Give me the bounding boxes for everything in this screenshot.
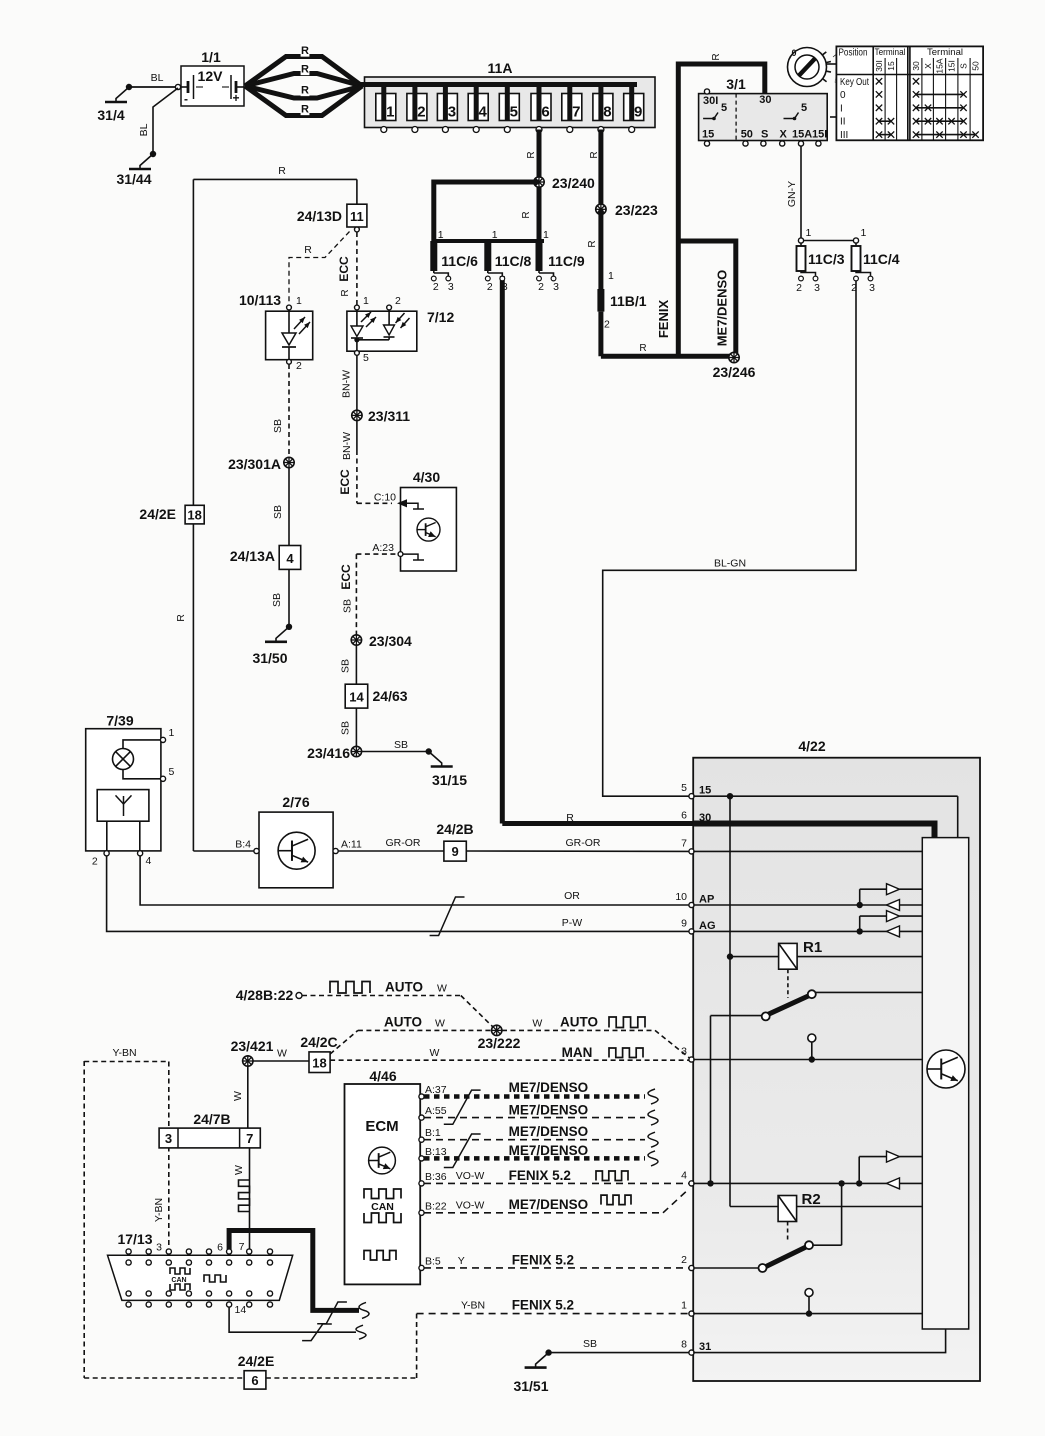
svg-text:B:13: B:13 xyxy=(425,1146,447,1158)
svg-text:BN-W: BN-W xyxy=(341,432,353,460)
svg-text:23/304: 23/304 xyxy=(369,633,412,649)
svg-text:W: W xyxy=(429,1047,439,1059)
svg-text:CAN: CAN xyxy=(371,1201,394,1213)
svg-text:5: 5 xyxy=(721,102,727,114)
svg-text:R: R xyxy=(301,104,309,116)
svg-text:2: 2 xyxy=(296,360,302,372)
svg-text:Y-BN: Y-BN xyxy=(461,1300,485,1312)
svg-text:VO-W: VO-W xyxy=(456,1170,485,1182)
svg-text:OR: OR xyxy=(564,890,580,902)
svg-text:5: 5 xyxy=(363,352,369,364)
svg-text:2: 2 xyxy=(796,282,802,294)
svg-text:24/13D: 24/13D xyxy=(297,208,342,224)
svg-text:1: 1 xyxy=(861,227,867,239)
svg-text:2: 2 xyxy=(395,295,401,307)
svg-text:24/13A: 24/13A xyxy=(230,548,275,564)
svg-text:A:23: A:23 xyxy=(372,542,394,554)
svg-text:R1: R1 xyxy=(803,939,822,956)
svg-text:15: 15 xyxy=(886,61,896,71)
svg-text:30I: 30I xyxy=(703,95,718,107)
svg-text:SB: SB xyxy=(340,659,352,673)
svg-text:1/1: 1/1 xyxy=(201,49,221,65)
svg-text:11: 11 xyxy=(350,209,364,224)
svg-text:15I: 15I xyxy=(812,129,827,141)
svg-text:12V: 12V xyxy=(198,68,224,84)
svg-text:-: - xyxy=(184,92,188,106)
svg-text:50: 50 xyxy=(741,129,753,141)
svg-text:31: 31 xyxy=(699,1341,711,1353)
svg-text:9: 9 xyxy=(451,844,458,859)
svg-text:SB: SB xyxy=(394,739,408,751)
svg-text:R: R xyxy=(301,45,309,57)
svg-text:11A: 11A xyxy=(488,60,513,76)
svg-text:1: 1 xyxy=(386,104,394,121)
svg-text:31/4: 31/4 xyxy=(97,107,124,123)
svg-text:Terminal: Terminal xyxy=(927,47,963,58)
svg-text:S: S xyxy=(959,63,969,69)
svg-text:11C/8: 11C/8 xyxy=(495,253,532,269)
svg-text:24/2E: 24/2E xyxy=(238,1353,275,1369)
svg-text:R: R xyxy=(301,64,309,76)
svg-text:B:36: B:36 xyxy=(425,1171,447,1183)
svg-text:30: 30 xyxy=(759,94,771,106)
svg-text:50: 50 xyxy=(971,61,981,71)
svg-text:1: 1 xyxy=(543,229,549,241)
svg-text:15I: 15I xyxy=(947,60,957,72)
svg-text:R: R xyxy=(566,812,574,824)
svg-text:7: 7 xyxy=(681,837,687,849)
svg-text:11C/4: 11C/4 xyxy=(863,251,900,267)
svg-text:FENIX 5.2: FENIX 5.2 xyxy=(512,1298,574,1313)
svg-text:R: R xyxy=(589,151,600,158)
svg-text:W: W xyxy=(232,1091,244,1101)
svg-text:Y: Y xyxy=(458,1255,465,1267)
svg-text:23/416: 23/416 xyxy=(307,745,350,761)
svg-text:AG: AG xyxy=(699,920,716,932)
svg-text:ME7/DENSO: ME7/DENSO xyxy=(509,1143,589,1158)
svg-text:23/421: 23/421 xyxy=(231,1038,274,1054)
svg-text:23/222: 23/222 xyxy=(478,1035,521,1051)
svg-text:4: 4 xyxy=(286,551,294,566)
svg-text:31/51: 31/51 xyxy=(513,1378,548,1394)
svg-text:Terminal: Terminal xyxy=(875,47,906,58)
svg-text:4: 4 xyxy=(479,104,488,121)
svg-text:SB: SB xyxy=(272,505,284,519)
svg-text:3: 3 xyxy=(448,104,456,121)
svg-text:ECM: ECM xyxy=(365,1118,398,1135)
svg-text:31/15: 31/15 xyxy=(432,772,467,788)
svg-text:P-W: P-W xyxy=(562,917,583,929)
svg-text:17/13: 17/13 xyxy=(117,1231,152,1247)
svg-text:4/28B:22: 4/28B:22 xyxy=(236,987,294,1003)
svg-text:X: X xyxy=(780,129,788,141)
svg-text:15: 15 xyxy=(699,785,711,797)
svg-text:R: R xyxy=(521,211,532,218)
svg-text:Y-BN: Y-BN xyxy=(112,1047,136,1059)
svg-text:8: 8 xyxy=(681,1339,687,1351)
svg-text:1: 1 xyxy=(438,229,444,241)
svg-text:18: 18 xyxy=(187,507,201,522)
svg-text:+: + xyxy=(232,91,239,105)
svg-text:23/246: 23/246 xyxy=(713,364,756,380)
svg-text:24/2E: 24/2E xyxy=(139,506,176,522)
svg-text:4/46: 4/46 xyxy=(369,1068,396,1084)
svg-text:FENIX 5.2: FENIX 5.2 xyxy=(512,1253,574,1268)
svg-text:SB: SB xyxy=(342,599,354,613)
svg-text:ECC: ECC xyxy=(338,469,352,495)
svg-text:1: 1 xyxy=(363,295,369,307)
svg-text:SB: SB xyxy=(271,593,283,607)
svg-text:R: R xyxy=(639,343,646,354)
svg-text:4: 4 xyxy=(145,855,151,867)
svg-text:23/311: 23/311 xyxy=(368,408,410,424)
svg-text:11C/9: 11C/9 xyxy=(548,253,585,269)
svg-text:II: II xyxy=(840,117,846,128)
svg-text:30I: 30I xyxy=(874,60,884,72)
svg-text:B:22: B:22 xyxy=(425,1200,447,1212)
svg-text:C:10: C:10 xyxy=(374,492,396,504)
svg-text:B:5: B:5 xyxy=(425,1255,441,1267)
svg-text:9: 9 xyxy=(681,917,687,929)
svg-text:0: 0 xyxy=(840,90,846,101)
svg-text:R: R xyxy=(340,289,351,296)
svg-text:2/76: 2/76 xyxy=(282,794,309,810)
svg-text:1: 1 xyxy=(169,727,175,739)
svg-text:7/12: 7/12 xyxy=(427,309,454,325)
svg-text:10/113: 10/113 xyxy=(239,292,281,308)
svg-text:31/50: 31/50 xyxy=(252,650,287,666)
svg-text:W: W xyxy=(437,983,447,995)
svg-text:AUTO: AUTO xyxy=(385,980,423,995)
svg-text:2: 2 xyxy=(681,1254,687,1266)
svg-text:2: 2 xyxy=(433,281,439,293)
svg-text:MAN: MAN xyxy=(562,1045,593,1060)
svg-text:ECC: ECC xyxy=(337,256,351,282)
svg-text:3: 3 xyxy=(869,282,875,294)
svg-text:W: W xyxy=(532,1018,542,1030)
svg-text:3/1: 3/1 xyxy=(726,76,746,92)
svg-text:7: 7 xyxy=(246,1131,253,1146)
svg-text:24/63: 24/63 xyxy=(373,688,408,704)
svg-text:Y-BN: Y-BN xyxy=(153,1198,165,1222)
svg-text:R: R xyxy=(304,244,312,256)
svg-text:W: W xyxy=(435,1018,445,1030)
svg-text:4/22: 4/22 xyxy=(798,738,825,754)
svg-text:14: 14 xyxy=(349,690,364,705)
svg-text:24/2B: 24/2B xyxy=(436,821,473,837)
svg-text:BL: BL xyxy=(151,72,164,84)
svg-text:7: 7 xyxy=(239,1241,245,1253)
svg-text:11C/3: 11C/3 xyxy=(808,251,845,267)
svg-text:ME7/DENSO: ME7/DENSO xyxy=(509,1124,589,1139)
svg-text:ME7/DENSO: ME7/DENSO xyxy=(715,270,730,347)
svg-text:0: 0 xyxy=(791,48,796,58)
svg-text:2: 2 xyxy=(417,104,425,121)
svg-text:R2: R2 xyxy=(802,1191,821,1208)
svg-text:30: 30 xyxy=(911,61,921,71)
svg-text:9: 9 xyxy=(634,104,642,121)
svg-text:GN-Y: GN-Y xyxy=(786,181,798,207)
svg-text:BL: BL xyxy=(138,123,150,136)
svg-text:R: R xyxy=(278,165,286,177)
svg-text:BL-GN: BL-GN xyxy=(714,558,746,570)
svg-text:4/30: 4/30 xyxy=(413,469,440,485)
svg-text:11B/1: 11B/1 xyxy=(610,293,647,309)
svg-text:10: 10 xyxy=(675,891,687,903)
svg-text:5: 5 xyxy=(510,104,518,121)
svg-text:VO-W: VO-W xyxy=(456,1200,485,1212)
svg-text:ME7/DENSO: ME7/DENSO xyxy=(509,1103,589,1118)
svg-text:R: R xyxy=(301,85,309,97)
svg-text:5: 5 xyxy=(801,102,807,114)
svg-text:5: 5 xyxy=(681,782,687,794)
svg-text:8: 8 xyxy=(603,104,611,121)
svg-text:1: 1 xyxy=(296,295,302,307)
svg-text:1: 1 xyxy=(492,229,498,241)
svg-text:15A: 15A xyxy=(792,129,812,141)
svg-text:1: 1 xyxy=(681,1300,687,1312)
svg-text:23/240: 23/240 xyxy=(552,175,595,191)
svg-text:6: 6 xyxy=(681,810,687,822)
svg-text:24/7B: 24/7B xyxy=(193,1111,230,1127)
svg-text:4: 4 xyxy=(681,1169,687,1181)
svg-text:1: 1 xyxy=(608,270,614,282)
svg-text:ME7/DENSO: ME7/DENSO xyxy=(509,1197,589,1212)
svg-text:ECC: ECC xyxy=(339,564,353,590)
svg-text:W: W xyxy=(277,1048,287,1060)
svg-text:2: 2 xyxy=(92,856,98,868)
svg-text:A:37: A:37 xyxy=(425,1084,447,1096)
svg-text:24/2C: 24/2C xyxy=(300,1034,337,1050)
svg-text:2: 2 xyxy=(487,281,493,293)
svg-text:III: III xyxy=(840,130,848,141)
svg-text:GR-OR: GR-OR xyxy=(386,837,421,849)
svg-text:SB: SB xyxy=(340,721,352,735)
svg-text:SB: SB xyxy=(272,419,284,433)
svg-text:5: 5 xyxy=(169,766,175,778)
svg-text:B:4: B:4 xyxy=(235,839,251,851)
svg-text:6: 6 xyxy=(541,104,549,121)
svg-text:R: R xyxy=(526,151,537,158)
svg-text:BN-W: BN-W xyxy=(341,370,353,398)
svg-text:I: I xyxy=(840,103,843,114)
svg-text:R: R xyxy=(711,53,722,60)
svg-text:3: 3 xyxy=(814,282,820,294)
svg-text:2: 2 xyxy=(538,281,544,293)
svg-text:7: 7 xyxy=(572,104,580,121)
svg-text:3: 3 xyxy=(165,1131,172,1146)
svg-text:7/39: 7/39 xyxy=(106,713,133,729)
svg-text:6: 6 xyxy=(251,1373,258,1388)
svg-text:3: 3 xyxy=(448,281,454,293)
svg-text:18: 18 xyxy=(312,1056,326,1071)
svg-text:11C/6: 11C/6 xyxy=(441,253,478,269)
svg-text:3: 3 xyxy=(553,281,559,293)
svg-text:R: R xyxy=(587,240,598,247)
svg-text:R: R xyxy=(175,614,187,622)
svg-text:2: 2 xyxy=(604,319,610,331)
svg-text:FENIX: FENIX xyxy=(656,300,671,339)
svg-text:1: 1 xyxy=(806,227,812,239)
svg-text:SB: SB xyxy=(583,1338,597,1350)
svg-text:A:55: A:55 xyxy=(425,1105,447,1117)
svg-text:6: 6 xyxy=(217,1242,223,1254)
svg-text:AUTO: AUTO xyxy=(560,1015,598,1030)
svg-text:23/301A: 23/301A xyxy=(228,456,281,472)
svg-text:S: S xyxy=(761,129,768,141)
svg-text:Position: Position xyxy=(839,48,868,59)
svg-text:AP: AP xyxy=(699,894,714,906)
svg-text:AUTO: AUTO xyxy=(384,1015,422,1030)
svg-text:A:11: A:11 xyxy=(341,839,362,851)
svg-text:31/44: 31/44 xyxy=(116,171,151,187)
svg-text:X: X xyxy=(923,63,933,69)
svg-text:B:1: B:1 xyxy=(425,1127,441,1139)
svg-text:Key Out: Key Out xyxy=(840,77,869,88)
svg-text:14: 14 xyxy=(235,1304,247,1316)
svg-text:15: 15 xyxy=(702,129,714,141)
svg-text:15A: 15A xyxy=(935,58,945,73)
svg-text:CAN: CAN xyxy=(171,1277,186,1284)
svg-text:FENIX 5.2: FENIX 5.2 xyxy=(509,1168,571,1183)
svg-text:3: 3 xyxy=(502,281,508,293)
svg-text:23/223: 23/223 xyxy=(615,202,658,218)
svg-text:3: 3 xyxy=(156,1242,162,1254)
svg-text:GR-OR: GR-OR xyxy=(566,837,601,849)
svg-text:ME7/DENSO: ME7/DENSO xyxy=(509,1080,589,1095)
svg-text:W: W xyxy=(233,1165,245,1175)
